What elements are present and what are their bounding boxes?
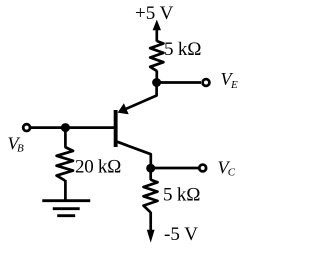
svg-text:5 kΩ: 5 kΩ — [164, 39, 202, 60]
svg-text:-5 V: -5 V — [164, 224, 198, 245]
svg-text:20 kΩ: 20 kΩ — [75, 157, 121, 178]
svg-text:+5 V: +5 V — [135, 3, 174, 24]
svg-text:B: B — [17, 143, 24, 155]
svg-text:5 kΩ: 5 kΩ — [163, 185, 201, 206]
svg-text:C: C — [228, 167, 236, 179]
svg-text:E: E — [230, 79, 238, 91]
